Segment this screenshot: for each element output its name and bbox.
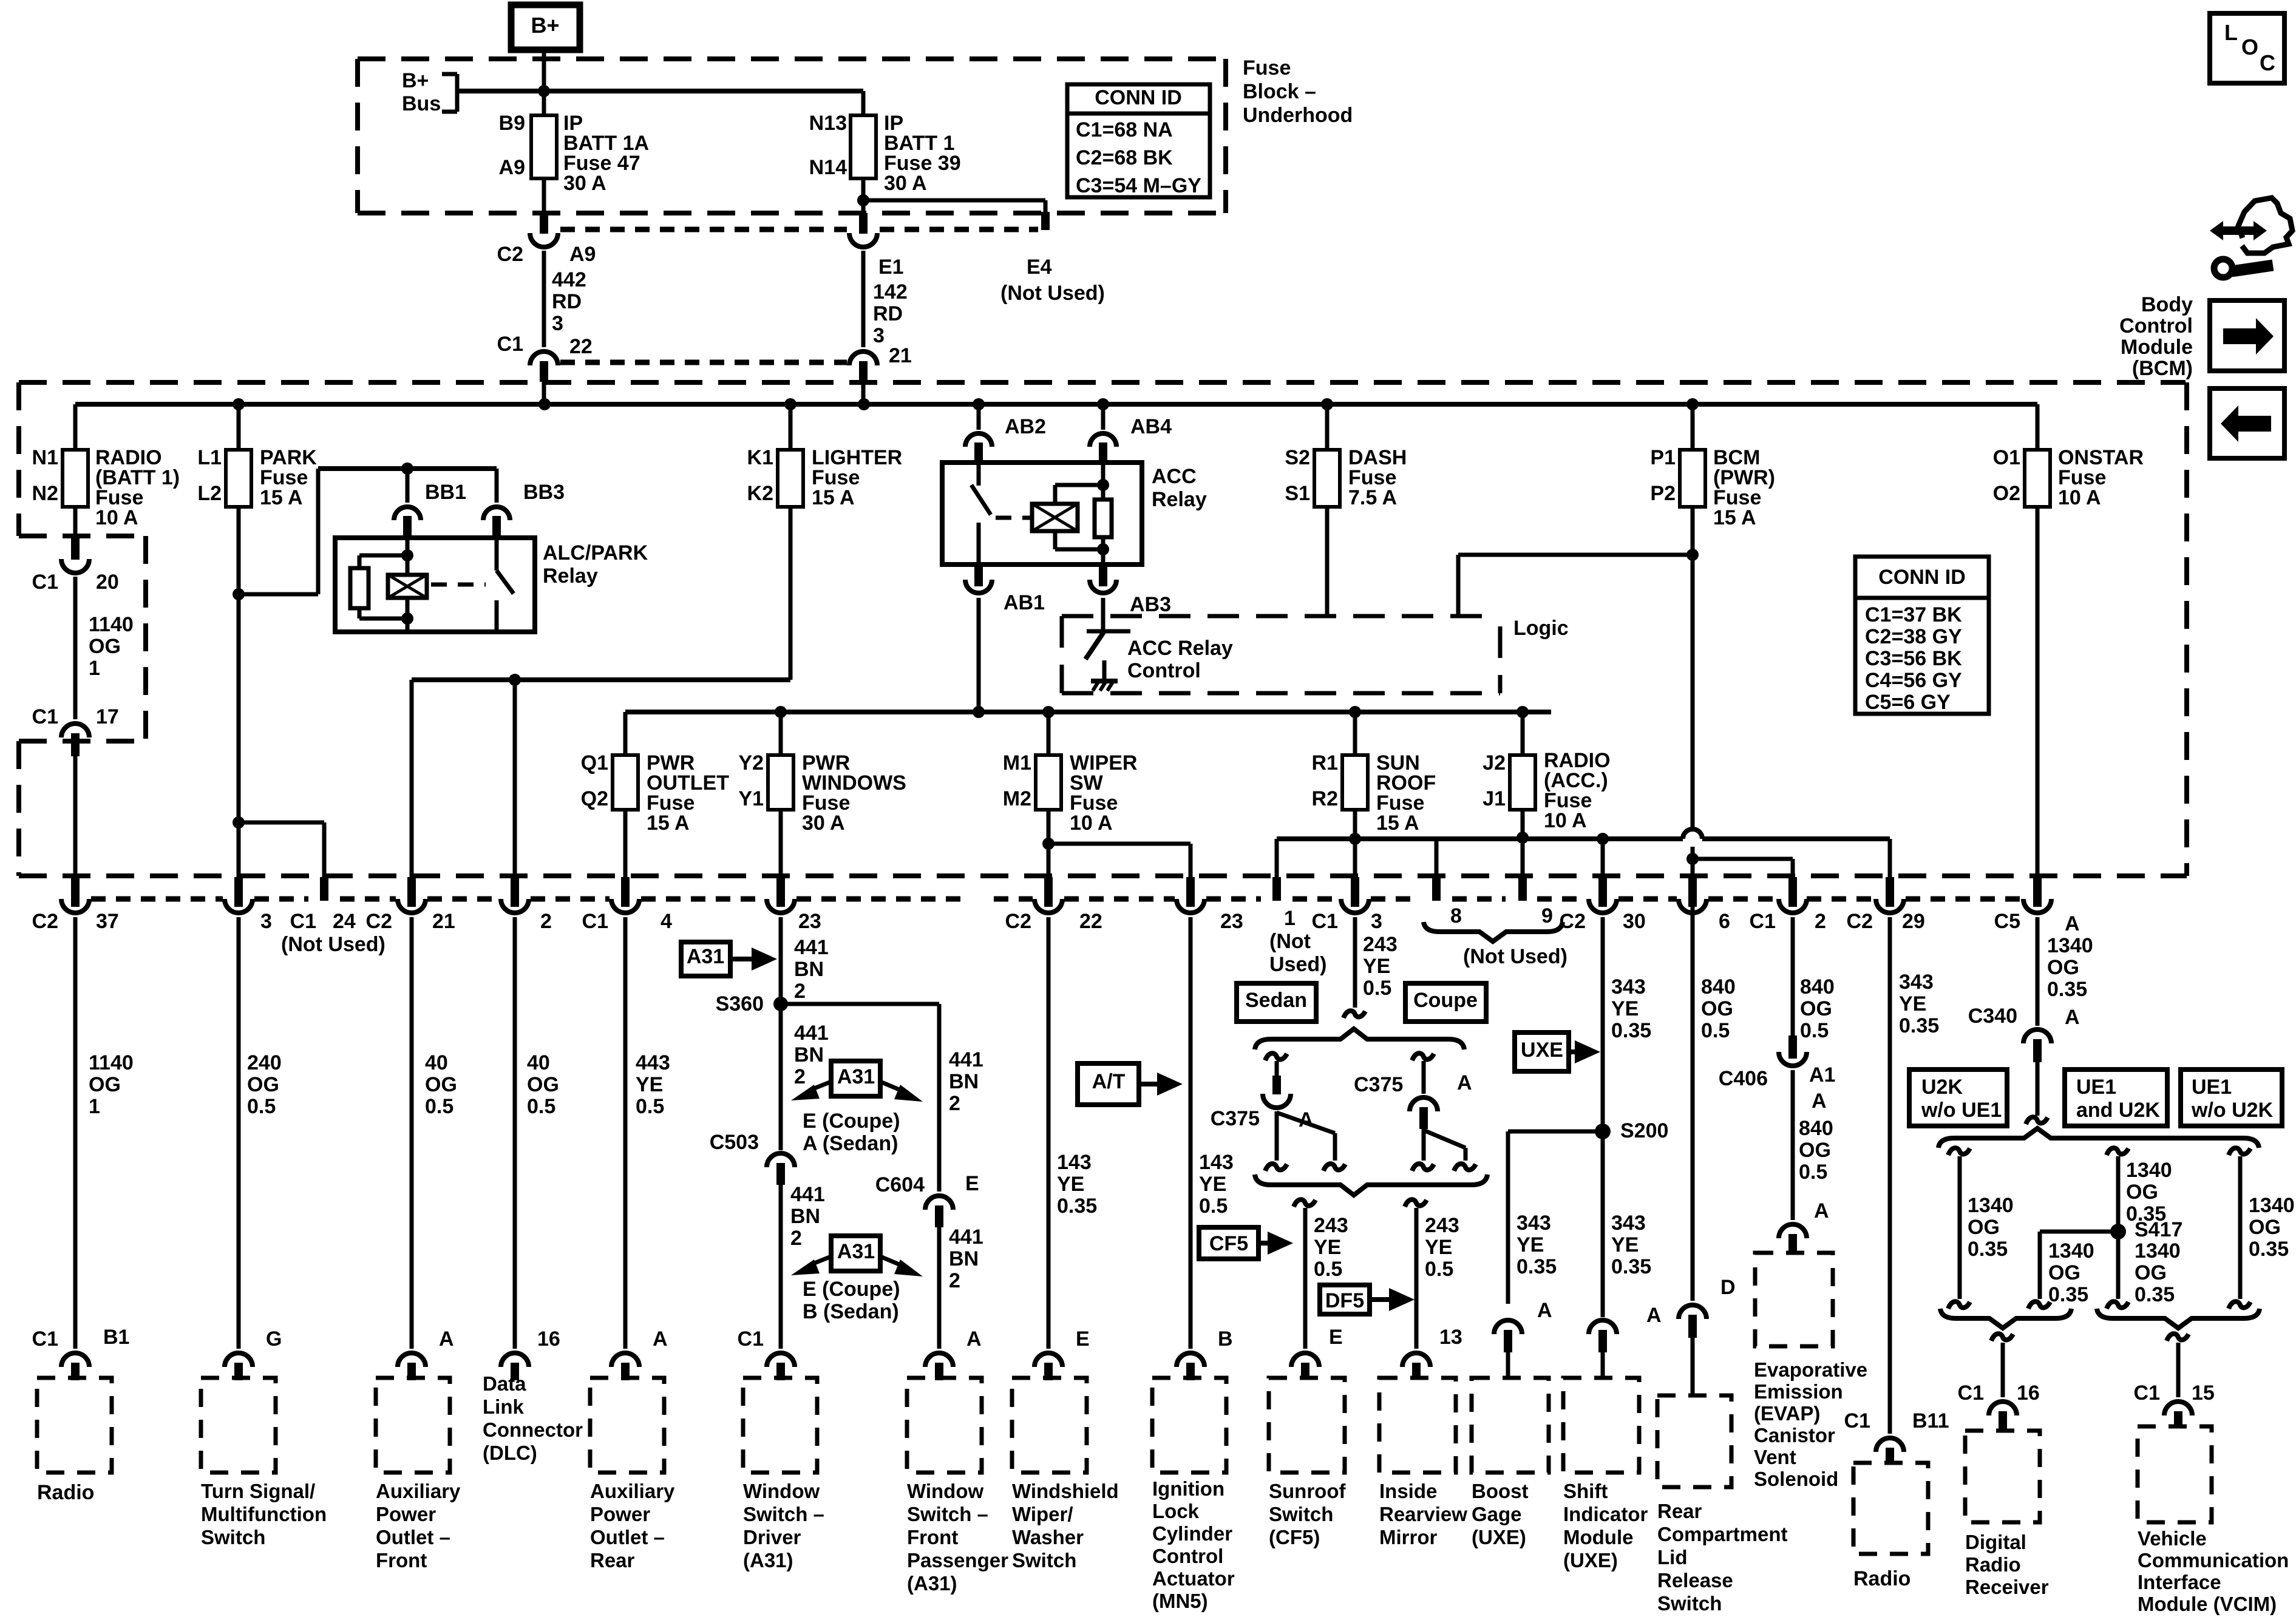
svg-text:P1: P1 [1650,446,1676,469]
svg-text:YE: YE [1363,955,1390,978]
svg-text:10 A: 10 A [2058,486,2101,509]
svg-text:23: 23 [1220,910,1243,933]
svg-text:2: 2 [790,1227,802,1250]
svg-text:Sunroof: Sunroof [1269,1480,1346,1502]
svg-text:G: G [266,1327,282,1351]
svg-text:B: B [1218,1327,1233,1351]
svg-text:Sedan: Sedan [1245,989,1307,1012]
svg-text:Switch –: Switch – [743,1503,824,1525]
svg-text:BB1: BB1 [425,481,466,504]
svg-text:C406: C406 [1719,1067,1768,1090]
svg-text:24: 24 [333,910,356,933]
svg-text:C1: C1 [1958,1381,1984,1405]
svg-text:Inside: Inside [1379,1480,1437,1502]
svg-text:0.35: 0.35 [1611,1255,1651,1278]
svg-text:0.5: 0.5 [1800,1019,1829,1042]
svg-text:840: 840 [1701,975,1736,998]
svg-text:(Not Used): (Not Used) [281,933,385,956]
svg-text:OG: OG [1968,1216,2000,1239]
svg-text:C5: C5 [1994,910,2020,933]
svg-text:J1: J1 [1483,787,1506,810]
svg-text:E (Coupe): E (Coupe) [803,1278,900,1301]
svg-text:BN: BN [790,1205,820,1228]
svg-text:S360: S360 [716,992,764,1015]
svg-text:29: 29 [1902,910,1925,933]
svg-text:OG: OG [2048,1261,2080,1284]
svg-text:C1=68 NA: C1=68 NA [1076,118,1173,141]
svg-text:Window: Window [907,1480,983,1502]
svg-text:R1: R1 [1312,751,1338,775]
svg-text:0.35: 0.35 [2249,1238,2289,1261]
svg-text:L: L [2224,20,2238,45]
svg-text:BN: BN [949,1247,979,1270]
svg-text:OG: OG [2126,1181,2158,1204]
svg-text:B9: B9 [499,112,525,135]
svg-text:1340: 1340 [2048,1239,2094,1263]
svg-text:U2K: U2K [1921,1076,1963,1099]
svg-text:1: 1 [1284,907,1296,930]
svg-text:0.35: 0.35 [1611,1019,1651,1042]
svg-text:OG: OG [247,1073,279,1096]
svg-text:Cylinder: Cylinder [1152,1522,1232,1545]
svg-text:C503: C503 [710,1131,759,1154]
svg-text:15 A: 15 A [1376,812,1419,835]
svg-text:343: 343 [1899,971,1934,994]
svg-text:15 A: 15 A [1713,506,1756,529]
svg-text:(Not Used): (Not Used) [1000,282,1105,305]
svg-text:C1: C1 [497,333,523,356]
svg-text:Turn Signal/: Turn Signal/ [201,1480,315,1502]
svg-text:S2: S2 [1285,446,1310,469]
svg-text:20: 20 [96,571,119,594]
svg-text:Front: Front [907,1526,958,1548]
svg-text:C2: C2 [366,910,392,933]
svg-text:9: 9 [1541,904,1553,927]
svg-text:2: 2 [794,980,806,1003]
svg-text:(DLC): (DLC) [483,1442,537,1464]
svg-text:ALC/PARK: ALC/PARK [543,541,648,564]
svg-text:21: 21 [432,910,455,933]
svg-text:Switch: Switch [1657,1592,1722,1615]
svg-text:15: 15 [2192,1381,2215,1405]
svg-text:Gage: Gage [1472,1503,1522,1525]
svg-text:OG: OG [2135,1261,2167,1284]
svg-text:Radio: Radio [37,1481,94,1504]
svg-text:A: A [1812,1090,1827,1113]
svg-text:840: 840 [1800,975,1835,998]
svg-text:243: 243 [1425,1214,1459,1237]
svg-text:OG: OG [89,635,121,658]
svg-text:8: 8 [1450,904,1462,927]
svg-text:40: 40 [425,1051,448,1074]
svg-text:1340: 1340 [1968,1194,2014,1217]
svg-text:and U2K: and U2K [2076,1099,2160,1122]
svg-text:N2: N2 [32,482,58,505]
svg-text:0.5: 0.5 [1363,977,1391,1000]
svg-text:1140: 1140 [89,1051,134,1074]
svg-text:YE: YE [636,1073,663,1096]
svg-text:2: 2 [949,1269,960,1292]
svg-text:0.5: 0.5 [1701,1019,1730,1042]
svg-text:w/o U2K: w/o U2K [2191,1099,2274,1122]
svg-text:(UXE): (UXE) [1563,1549,1618,1571]
svg-text:C2: C2 [32,910,58,933]
svg-text:C2: C2 [1847,910,1873,933]
svg-text:1340: 1340 [2135,1239,2181,1263]
svg-text:240: 240 [247,1051,282,1074]
svg-text:0.35: 0.35 [1517,1255,1557,1278]
svg-text:6: 6 [1719,910,1730,933]
svg-text:RD: RD [873,302,903,325]
svg-text:C375: C375 [1354,1073,1403,1096]
svg-text:E: E [965,1172,979,1195]
svg-text:Vehicle: Vehicle [2138,1527,2207,1550]
svg-text:S1: S1 [1285,482,1310,505]
svg-text:A31: A31 [837,1065,875,1088]
svg-text:C3=54 M–GY: C3=54 M–GY [1076,174,1201,197]
svg-text:E: E [1076,1327,1090,1351]
svg-text:AB4: AB4 [1130,415,1172,438]
svg-text:Lid: Lid [1657,1546,1687,1568]
svg-text:D: D [1720,1276,1736,1299]
svg-text:(A31): (A31) [907,1572,957,1595]
svg-text:Power: Power [376,1503,436,1525]
svg-text:1340: 1340 [2126,1159,2172,1182]
svg-text:3: 3 [1371,910,1382,933]
svg-text:143: 143 [1057,1151,1092,1174]
svg-text:Evaporative: Evaporative [1754,1358,1867,1381]
svg-text:22: 22 [1079,910,1102,933]
svg-text:C1: C1 [1750,910,1776,933]
svg-text:A1: A1 [1809,1063,1835,1086]
svg-text:M1: M1 [1003,751,1031,775]
svg-text:YE: YE [1314,1236,1341,1259]
svg-text:A: A [966,1327,982,1351]
svg-text:7.5 A: 7.5 A [1348,486,1397,509]
svg-text:Indicator: Indicator [1563,1503,1648,1525]
svg-text:Q1: Q1 [581,751,608,775]
svg-text:B (Sedan): B (Sedan) [803,1300,899,1323]
svg-text:Canistor: Canistor [1754,1424,1835,1446]
svg-text:C1: C1 [32,705,58,728]
svg-text:16: 16 [537,1327,560,1351]
svg-text:A: A [1646,1304,1662,1327]
svg-text:Driver: Driver [743,1526,801,1548]
svg-text:22: 22 [569,335,593,358]
svg-text:C1: C1 [1844,1409,1870,1432]
svg-text:C2: C2 [497,243,523,266]
svg-text:1340: 1340 [2047,934,2093,957]
svg-text:10 A: 10 A [1544,809,1587,832]
svg-text:UE1: UE1 [2192,1076,2232,1099]
svg-text:A31: A31 [687,945,724,968]
svg-text:Window: Window [743,1480,820,1502]
svg-text:B11: B11 [1912,1409,1949,1432]
svg-text:2: 2 [1815,910,1826,933]
svg-text:N1: N1 [32,446,58,469]
svg-text:S200: S200 [1620,1119,1668,1142]
svg-text:441: 441 [790,1183,825,1206]
svg-text:15 A: 15 A [260,486,303,509]
svg-text:C1: C1 [1312,910,1338,933]
svg-text:C1: C1 [2134,1381,2160,1405]
svg-text:C2=68 BK: C2=68 BK [1076,146,1173,169]
svg-text:10 A: 10 A [95,506,138,529]
svg-text:441: 441 [949,1048,983,1071]
svg-text:OG: OG [1799,1139,1831,1162]
svg-text:Receiver: Receiver [1965,1576,2049,1598]
svg-text:(A31): (A31) [743,1549,793,1571]
svg-text:(EVAP): (EVAP) [1754,1402,1820,1425]
svg-text:Shift: Shift [1563,1480,1608,1502]
svg-text:Outlet –: Outlet – [376,1526,450,1548]
svg-text:C1: C1 [290,910,316,933]
svg-text:OG: OG [89,1073,121,1096]
svg-text:BN: BN [949,1070,979,1093]
svg-text:Auxiliary: Auxiliary [376,1480,461,1502]
svg-text:YE: YE [1425,1236,1452,1259]
svg-text:243: 243 [1363,933,1398,956]
svg-text:B+: B+ [402,69,429,92]
svg-text:1140: 1140 [89,613,134,636]
svg-text:Q2: Q2 [581,787,608,810]
svg-text:Release: Release [1657,1569,1733,1592]
svg-text:A9: A9 [569,243,596,266]
svg-text:Y2: Y2 [738,751,764,775]
svg-text:A: A [439,1327,454,1351]
svg-text:Communication: Communication [2138,1549,2289,1571]
svg-text:A: A [1457,1071,1472,1094]
svg-text:UXE: UXE [1521,1039,1563,1062]
svg-text:w/o UE1: w/o UE1 [1921,1099,2002,1122]
svg-text:(Not Used): (Not Used) [1463,945,1567,968]
svg-text:OG: OG [1701,997,1733,1020]
svg-text:M2: M2 [1003,787,1031,810]
svg-text:Emission: Emission [1754,1380,1843,1403]
svg-text:BB3: BB3 [523,481,565,504]
svg-text:C2: C2 [1560,910,1586,933]
svg-text:Coupe: Coupe [1413,989,1478,1012]
svg-text:C375: C375 [1211,1107,1260,1130]
svg-text:1340: 1340 [2249,1194,2295,1217]
svg-text:Rearview: Rearview [1379,1503,1467,1525]
svg-text:C1: C1 [32,1327,58,1351]
svg-text:Module (VCIM): Module (VCIM) [2138,1593,2277,1615]
svg-text:Bus: Bus [402,92,441,115]
svg-text:0.35: 0.35 [1899,1014,1939,1037]
svg-text:142: 142 [873,280,908,303]
svg-text:Actuator: Actuator [1152,1567,1235,1590]
svg-text:OG: OG [425,1073,457,1096]
svg-text:A: A [653,1327,668,1351]
svg-text:30 A: 30 A [884,172,927,195]
svg-text:BN: BN [794,1043,824,1066]
svg-text:C4=56 GY: C4=56 GY [1865,669,1962,692]
svg-text:E: E [1329,1326,1343,1349]
svg-text:OG: OG [2047,956,2079,979]
svg-text:343: 343 [1611,1212,1646,1235]
svg-text:A (Sedan): A (Sedan) [803,1132,898,1155]
svg-text:143: 143 [1199,1151,1234,1174]
svg-text:Underhood: Underhood [1243,104,1353,127]
svg-text:443: 443 [636,1051,670,1074]
svg-text:840: 840 [1799,1117,1833,1140]
svg-text:Ignition: Ignition [1152,1477,1224,1500]
svg-text:CF5: CF5 [1209,1232,1248,1255]
svg-text:C1: C1 [738,1327,764,1351]
svg-text:Connector: Connector [483,1419,583,1441]
svg-text:Body: Body [2141,293,2193,316]
svg-text:C1=37 BK: C1=37 BK [1865,603,1962,626]
svg-text:1: 1 [89,1095,100,1118]
svg-text:30: 30 [1623,910,1646,933]
svg-text:3: 3 [552,312,563,335]
svg-text:2: 2 [794,1065,806,1088]
svg-text:A: A [2065,1006,2080,1029]
svg-text:Mirror: Mirror [1379,1526,1438,1548]
svg-text:B+: B+ [531,13,559,38]
svg-text:0.5: 0.5 [1314,1258,1342,1281]
svg-text:A/T: A/T [1092,1070,1126,1093]
svg-text:23: 23 [798,910,821,933]
svg-text:Outlet –: Outlet – [590,1526,665,1548]
svg-text:3: 3 [260,910,272,933]
svg-text:ACC: ACC [1152,465,1197,488]
svg-text:441: 441 [794,1022,829,1045]
svg-text:0.35: 0.35 [2048,1283,2088,1306]
svg-text:L2: L2 [197,482,222,505]
svg-text:O: O [2241,35,2258,59]
svg-text:2: 2 [540,910,552,933]
svg-text:13: 13 [1439,1326,1462,1349]
svg-text:S417: S417 [2135,1218,2182,1241]
svg-text:0.35: 0.35 [2135,1283,2175,1306]
svg-text:(UXE): (UXE) [1472,1526,1526,1548]
svg-text:C2=38 GY: C2=38 GY [1865,625,1962,648]
svg-text:Windshield: Windshield [1012,1480,1119,1502]
svg-text:UE1: UE1 [2076,1076,2116,1099]
svg-text:RD: RD [552,290,582,313]
svg-text:17: 17 [96,705,119,728]
svg-text:1: 1 [89,657,100,680]
svg-text:Module: Module [1563,1526,1633,1548]
svg-text:441: 441 [949,1225,983,1249]
svg-text:Rear: Rear [1657,1500,1702,1522]
svg-text:(BCM): (BCM) [2132,357,2193,380]
svg-text:0.35: 0.35 [1057,1195,1097,1218]
svg-text:C: C [2260,50,2275,75]
svg-text:442: 442 [552,268,586,291]
svg-text:0.35: 0.35 [2047,978,2087,1001]
svg-text:OG: OG [1800,997,1832,1020]
svg-text:C3=56 BK: C3=56 BK [1865,647,1962,670]
svg-text:37: 37 [96,910,119,933]
svg-text:R2: R2 [1312,787,1338,810]
svg-text:Power: Power [590,1503,650,1525]
svg-text:Data: Data [483,1372,526,1395]
svg-text:A: A [2065,912,2080,935]
svg-text:15 A: 15 A [812,486,855,509]
svg-text:YE: YE [1517,1233,1544,1256]
svg-text:J2: J2 [1483,751,1506,775]
svg-text:OG: OG [527,1073,559,1096]
svg-text:B1: B1 [103,1326,129,1349]
svg-text:AB1: AB1 [1004,591,1045,614]
svg-text:C2: C2 [1005,910,1031,933]
svg-text:0.5: 0.5 [425,1095,453,1118]
svg-text:C5=6 GY: C5=6 GY [1865,691,1951,714]
svg-text:0.5: 0.5 [247,1095,276,1118]
svg-text:Solenoid: Solenoid [1754,1468,1838,1490]
svg-text:Interface: Interface [2138,1571,2221,1593]
svg-text:Control: Control [1127,659,1201,682]
svg-text:21: 21 [889,344,912,367]
svg-text:(CF5): (CF5) [1269,1526,1320,1548]
svg-text:Relay: Relay [1152,488,1207,511]
svg-text:YE: YE [1057,1173,1084,1196]
svg-text:Lock: Lock [1152,1500,1200,1522]
svg-text:K2: K2 [747,482,773,505]
svg-text:Module: Module [2121,336,2193,359]
svg-text:YE: YE [1611,1233,1639,1256]
svg-text:Used): Used) [1269,953,1326,976]
svg-text:Radio: Radio [1965,1553,2021,1576]
svg-text:0.35: 0.35 [1968,1238,2008,1261]
svg-text:O1: O1 [1993,446,2020,469]
svg-text:AB3: AB3 [1130,593,1171,616]
svg-text:Multifunction: Multifunction [201,1503,327,1525]
svg-text:CONN ID: CONN ID [1095,86,1182,109]
svg-text:O2: O2 [1993,482,2020,505]
svg-text:Vent: Vent [1754,1446,1796,1468]
svg-text:0.5: 0.5 [527,1095,555,1118]
svg-text:0.5: 0.5 [1425,1258,1453,1281]
svg-text:Rear: Rear [590,1549,635,1571]
svg-text:Switch –: Switch – [907,1503,988,1525]
svg-text:YE: YE [1611,997,1639,1020]
svg-text:0.5: 0.5 [636,1095,664,1118]
svg-text:441: 441 [794,936,829,959]
svg-text:YE: YE [1199,1173,1226,1196]
svg-text:Compartment: Compartment [1657,1523,1788,1545]
svg-text:Block –: Block – [1243,80,1316,103]
svg-text:343: 343 [1611,975,1646,998]
svg-text:C1: C1 [582,910,608,933]
svg-text:E4: E4 [1027,256,1052,279]
svg-text:BN: BN [794,958,824,981]
svg-text:N14: N14 [809,156,847,179]
svg-text:Control: Control [2119,314,2193,337]
svg-text:A: A [1814,1199,1829,1222]
svg-text:4: 4 [661,910,672,933]
svg-text:C340: C340 [1968,1005,2017,1028]
svg-text:2: 2 [949,1092,960,1115]
svg-text:Front: Front [376,1549,427,1571]
svg-text:343: 343 [1517,1212,1551,1235]
svg-text:A31: A31 [837,1240,875,1263]
svg-text:P2: P2 [1650,482,1676,505]
svg-text:A: A [1537,1299,1552,1322]
svg-text:(Not: (Not [1269,930,1311,953]
svg-text:0.5: 0.5 [1199,1195,1228,1218]
svg-text:Switch: Switch [1269,1503,1333,1525]
svg-text:(MN5): (MN5) [1152,1590,1208,1612]
svg-text:Radio: Radio [1853,1567,1911,1590]
svg-text:Switch: Switch [1012,1549,1076,1571]
svg-text:15 A: 15 A [647,812,690,835]
svg-text:30 A: 30 A [802,812,845,835]
svg-text:30 A: 30 A [563,172,606,195]
